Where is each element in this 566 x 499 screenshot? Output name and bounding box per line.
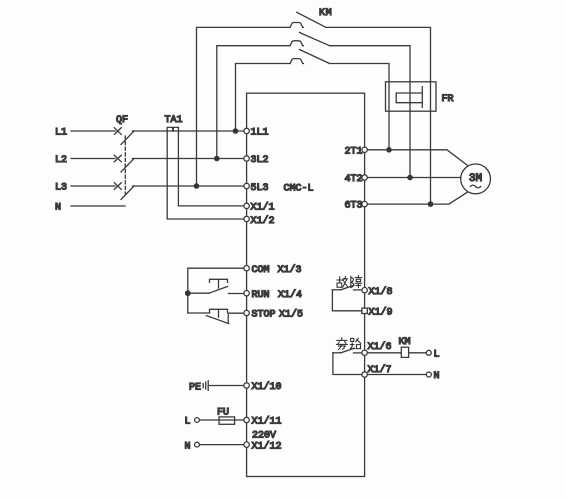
- svg-text:L2: L2: [55, 155, 67, 166]
- svg-text:4T2: 4T2: [345, 174, 363, 185]
- svg-text:KM: KM: [319, 8, 332, 19]
- svg-text:220V: 220V: [252, 431, 276, 442]
- terminal N circle: [195, 442, 200, 447]
- breaker QF linkage dashed: [124, 136, 126, 197]
- pin label X1/12: [252, 441, 282, 453]
- svg-text:L3: L3: [55, 183, 67, 194]
- bypass switch label panglu: [336, 338, 360, 350]
- wire KM contact 1 to FR: [327, 27, 431, 81]
- start stop common rail: [188, 268, 244, 313]
- wire FR phase B through box: [409, 82, 411, 178]
- wire TA1 secondary to X1/2: [167, 131, 244, 219]
- svg-text:N: N: [55, 203, 61, 214]
- svg-text:1L1: 1L1: [251, 128, 269, 139]
- node N label right: [434, 371, 440, 382]
- bypass switch blade: [341, 348, 354, 353]
- pin label X1/10: [252, 381, 282, 393]
- svg-text:RUN: RUN: [252, 290, 270, 301]
- wire 4T2 to motor: [367, 177, 461, 179]
- svg-text:X1/1: X1/1: [251, 202, 275, 214]
- svg-text:2T1: 2T1: [345, 146, 363, 157]
- ground PE label: [189, 383, 201, 394]
- soft starter CMC-L box: [247, 93, 365, 476]
- fault switch loop to X1/9: [332, 290, 362, 311]
- soft starter CMC-L label: [284, 184, 314, 195]
- wire L3 to QF: [71, 185, 115, 187]
- breaker QF pole 2 blade: [121, 159, 134, 173]
- breaker QF pole 3 blade: [121, 186, 134, 200]
- svg-text:3L2: 3L2: [251, 155, 269, 166]
- junction FR to 4T2 row: [407, 175, 413, 181]
- junction on L1: [233, 128, 239, 134]
- breaker QF label: [116, 115, 128, 126]
- terminal L circle: [195, 418, 200, 423]
- terminal 5L3: [244, 183, 249, 188]
- pin label X1/9: [369, 307, 393, 319]
- pin label X1/11: [252, 416, 282, 428]
- svg-text:X1/10: X1/10: [252, 381, 282, 393]
- svg-text:N: N: [185, 442, 191, 453]
- motor 3M label: [469, 173, 482, 185]
- wire 6T3 to motor: [367, 192, 467, 204]
- terminal 6T3: [362, 201, 367, 206]
- fuse FU body: [219, 417, 235, 424]
- pushbutton RUN blade: [209, 287, 228, 294]
- terminal X1/8: [362, 288, 367, 293]
- wire N stub: [71, 205, 125, 207]
- wire 2T1 to motor: [367, 150, 467, 166]
- pin label 4T2: [345, 174, 363, 185]
- pin label 5L3: [251, 183, 269, 194]
- fault switch wire right: [354, 289, 363, 291]
- pushbutton STOP actuator: [210, 309, 228, 317]
- wire N to X1/12: [199, 444, 244, 446]
- svg-text:X1/8: X1/8: [369, 286, 393, 298]
- svg-text:FR: FR: [442, 94, 454, 105]
- fault switch wire left: [332, 289, 341, 291]
- current transformer TA1 windings: [167, 127, 178, 131]
- svg-text:3M: 3M: [469, 173, 482, 185]
- pin label COM X1/3: [252, 264, 302, 276]
- wire QF to 5L3: [133, 185, 245, 187]
- pin label 2T1: [345, 146, 363, 157]
- wire L to X1/11: [199, 419, 244, 421]
- terminal X1/3 COM: [244, 266, 249, 271]
- wire FR phase A through box: [388, 82, 390, 150]
- pushbutton STOP fixed contact tick: [227, 314, 229, 324]
- current transformer TA1 label: [165, 115, 183, 126]
- terminal 4T2: [362, 175, 367, 180]
- node L1 label: [55, 128, 67, 139]
- wire riser L2 to KM contact 2: [217, 46, 290, 159]
- junction on L2: [214, 156, 220, 162]
- svg-text:L: L: [434, 350, 440, 361]
- terminal 2T1: [362, 147, 367, 152]
- svg-text:PE: PE: [189, 383, 201, 394]
- pin label X1/7: [368, 364, 392, 376]
- svg-text:KM: KM: [399, 337, 411, 348]
- junction FR to 6T3 row: [428, 201, 434, 207]
- terminal X1/11: [244, 417, 249, 422]
- pushbutton RUN wire right: [229, 293, 245, 295]
- contactor KM contact 2 arc: [290, 41, 303, 46]
- svg-text:X1/3: X1/3: [278, 264, 302, 276]
- pin label 1L1: [251, 128, 269, 139]
- contactor KM contact 2 blade: [300, 33, 330, 46]
- svg-text:X1/7: X1/7: [368, 364, 392, 376]
- wire riser L3 to KM contact 1: [197, 27, 291, 186]
- junction on L3: [194, 183, 200, 189]
- pushbutton STOP wire right: [228, 312, 244, 314]
- terminal N circle right: [426, 372, 431, 377]
- node L label (220V): [185, 417, 191, 428]
- pushbutton STOP wire left: [188, 312, 210, 314]
- contactor KM contact 3 blade: [300, 50, 330, 64]
- wire QF to 1L1: [133, 130, 245, 132]
- pushbutton RUN wire left: [188, 292, 209, 294]
- wire X1/7 to N: [367, 374, 426, 376]
- wire L2 to QF: [71, 158, 115, 160]
- wire L1 to QF: [71, 130, 115, 132]
- terminal X1/10: [244, 383, 249, 388]
- node L2 label: [55, 155, 67, 166]
- wire KM contact 2 to FR: [330, 46, 411, 82]
- contactor KM contact 3 arc: [290, 59, 303, 64]
- terminal X1/9: [362, 308, 367, 313]
- contactor KM label: [319, 8, 332, 19]
- thermal relay FR heater element: [396, 87, 422, 108]
- terminal X1/12: [244, 442, 249, 447]
- breaker QF pole 3 contact cross: [114, 183, 121, 190]
- terminal 3L2: [244, 156, 249, 161]
- svg-text:X1/12: X1/12: [252, 441, 282, 453]
- breaker QF pole 2 contact cross: [114, 155, 121, 162]
- node L3 label: [55, 183, 67, 194]
- bypass switch wire left: [333, 352, 341, 354]
- pushbutton STOP blade: [206, 316, 228, 324]
- contactor coil KM body: [401, 347, 408, 357]
- pin label RUN X1/4: [252, 289, 303, 301]
- wire riser L1 to KM contact 3: [236, 64, 291, 132]
- terminal X1/5 STOP: [244, 310, 249, 315]
- svg-text:COM: COM: [252, 265, 270, 276]
- terminal 1L1: [244, 128, 249, 133]
- svg-text:6T3: 6T3: [345, 201, 363, 212]
- terminal X1/7: [362, 372, 367, 377]
- terminal X1/4 RUN: [244, 291, 249, 296]
- bypass switch loop to X1/7: [333, 353, 362, 375]
- node N label (220V): [185, 442, 191, 453]
- svg-text:5L3: 5L3: [251, 183, 269, 194]
- svg-text:X1/5: X1/5: [279, 309, 303, 321]
- ground PE symbol: [203, 381, 208, 391]
- wire FR phase C through box: [430, 82, 432, 204]
- svg-text:X1/9: X1/9: [369, 307, 393, 319]
- breaker QF pole 1 contact cross: [114, 128, 121, 135]
- junction FR to 2T1 row: [386, 147, 392, 153]
- pin label X1/6: [368, 341, 392, 353]
- fault switch blade: [341, 285, 354, 290]
- contactor KM contact 1 arc: [290, 23, 303, 28]
- node N label: [55, 203, 61, 214]
- terminal L circle right: [426, 350, 431, 355]
- svg-text:X1/11: X1/11: [252, 416, 282, 428]
- pin label X1/8: [369, 286, 393, 298]
- terminal X1/6: [362, 350, 367, 355]
- svg-text:TA1: TA1: [165, 115, 183, 126]
- node L label right: [434, 350, 440, 361]
- svg-text:L1: L1: [55, 128, 67, 139]
- svg-text:STOP: STOP: [252, 310, 276, 321]
- pin label 3L2: [251, 155, 269, 166]
- fuse FU label: [217, 408, 229, 419]
- motor 3M circle: [461, 164, 491, 194]
- wire PE to X1/10: [210, 385, 245, 387]
- terminal X1/1: [244, 203, 249, 208]
- wire X1/6 to coil: [367, 352, 401, 354]
- motor tilde: [471, 185, 481, 188]
- junction common rail RUN: [185, 290, 191, 296]
- wire KM contact 3 to FR: [330, 64, 390, 82]
- pin label X1/2: [251, 215, 275, 227]
- svg-text:CMC-L: CMC-L: [284, 184, 314, 195]
- pin label STOP X1/5: [252, 309, 304, 321]
- breaker QF pole 1 blade: [121, 131, 134, 145]
- contactor KM contact 1 blade: [297, 12, 326, 27]
- pin label 6T3: [345, 201, 363, 212]
- contactor coil KM label: [399, 337, 411, 348]
- wire QF to 3L2: [133, 158, 245, 160]
- bypass switch wire right: [354, 352, 363, 354]
- fault switch label guzhang: [337, 276, 362, 288]
- wire TA1 secondary to X1/1: [178, 131, 244, 206]
- pushbutton RUN actuator: [210, 279, 228, 288]
- svg-text:N: N: [434, 371, 440, 382]
- svg-text:X1/4: X1/4: [278, 289, 302, 301]
- svg-text:X1/6: X1/6: [368, 341, 392, 353]
- thermal relay FR box: [386, 82, 437, 111]
- wire coil to L: [409, 352, 427, 354]
- value label 220V: [252, 431, 276, 442]
- svg-text:QF: QF: [116, 115, 128, 126]
- terminal X1/2: [244, 216, 249, 221]
- svg-text:L: L: [185, 417, 191, 428]
- pin label X1/1: [251, 202, 275, 214]
- thermal relay FR label: [442, 94, 454, 105]
- svg-text:X1/2: X1/2: [251, 215, 275, 227]
